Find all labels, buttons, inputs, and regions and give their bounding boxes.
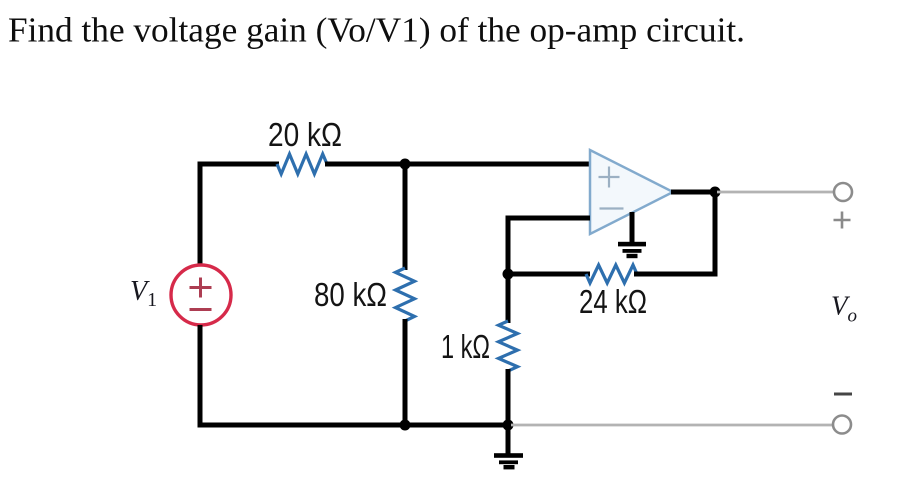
- op-amp plus input marker: [599, 176, 620, 178]
- plus terminal marker: [834, 219, 851, 222]
- op-amp minus input marker: [600, 207, 624, 209]
- wire 1k column lower: [506, 369, 511, 425]
- wire feedback left vertical: [506, 216, 511, 275]
- svg-text:V1: V1: [130, 276, 157, 311]
- node junction bottom of 80k: [400, 420, 411, 431]
- voltage source V1: [171, 265, 231, 325]
- svg-text:1 kΩ: 1 kΩ: [441, 328, 490, 365]
- op-amp U1: [590, 150, 673, 234]
- svg-text:Find the voltage gain (Vo/V1): Find the voltage gain (Vo/V1) of the op-…: [8, 12, 745, 50]
- wire 1k column upper: [506, 272, 511, 323]
- wire feedback right vertical: [713, 190, 718, 276]
- wire bottom segment: [198, 423, 509, 428]
- resistor R4 1 kOhm (vertical zigzag): [499, 321, 518, 371]
- node junction output: [710, 187, 721, 198]
- node junction top of 80k: [400, 159, 411, 170]
- node junction bottom of 1k: [503, 420, 514, 431]
- bottom ground symbol: [494, 453, 523, 458]
- wire feedback bottom-right segment: [634, 272, 718, 277]
- wire left rail upper: [198, 162, 203, 266]
- op-amp ground symbol: [618, 242, 646, 247]
- wire gray output lead bottom: [511, 424, 833, 427]
- wire 80k column lower: [403, 319, 408, 425]
- wire gray output lead top: [717, 191, 835, 194]
- svg-text:80 kΩ: 80 kΩ: [314, 276, 387, 313]
- svg-text:20 kΩ: 20 kΩ: [268, 116, 342, 153]
- terminal open circle top: [834, 183, 852, 201]
- svg-text:24 kΩ: 24 kΩ: [579, 283, 647, 320]
- wire feedback bottom-left segment: [508, 272, 590, 277]
- wire left rail lower: [198, 325, 203, 428]
- minus terminal marker: [834, 393, 852, 396]
- resistor R1 20 kOhm (horizontal zigzag): [277, 154, 327, 174]
- wire 80k column upper: [403, 164, 408, 270]
- resistor R3 24 kOhm (horizontal zigzag): [586, 265, 637, 283]
- wire op-amp output stub: [671, 190, 717, 195]
- resistor R2 80 kOhm (vertical zigzag): [396, 268, 415, 321]
- wire top-right segment: [325, 162, 590, 167]
- node junction feedback left: [503, 269, 514, 280]
- wire minus input stub: [508, 216, 590, 221]
- wire top-left segment: [200, 162, 279, 167]
- bottom ground stem: [506, 425, 511, 454]
- op-amp ground stem: [630, 212, 635, 243]
- svg-text:Vo: Vo: [831, 291, 857, 327]
- terminal open circle bottom: [833, 416, 851, 434]
